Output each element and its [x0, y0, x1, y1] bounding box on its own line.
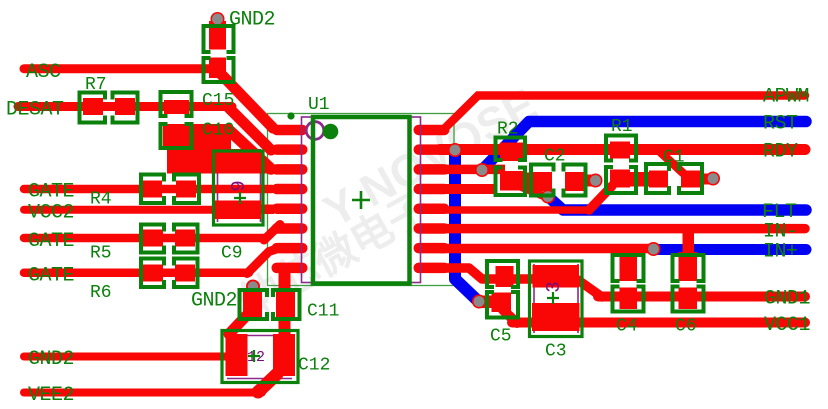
capacitor C3 bottom pad: [532, 303, 580, 331]
resistor R1 bracket bottom: [606, 167, 636, 193]
via GND2 top: [211, 12, 225, 26]
wire C1 stub to via: [699, 174, 712, 185]
svg-text:GND2: GND2: [28, 348, 74, 371]
U1 center cross: [352, 191, 370, 209]
resistor R1 pad top: [610, 142, 630, 159]
wire diagonal R5 to U1 row6: [264, 225, 280, 241]
wire R1 to C1 bridge: [610, 172, 668, 187]
svg-text:12: 12: [247, 349, 265, 366]
capacitor C4 bracket bottom: [613, 287, 644, 312]
svg-text:GND2: GND2: [229, 9, 275, 32]
via C11 left: [246, 280, 260, 294]
op-amp U1 courtyard thin green: [268, 114, 455, 286]
capacitor GND2-cap bracket top: [204, 26, 234, 52]
capacitor C15 bracket top: [161, 92, 192, 116]
capacitor C5 top pad: [496, 266, 514, 287]
capacitor C3 plus mark: [547, 292, 559, 304]
wire C2 stub to via: [583, 175, 596, 187]
wire diagonal VEE2 to C12: [258, 374, 277, 392]
wire IN+ red feed: [440, 244, 652, 254]
svg-text:R4: R4: [90, 190, 112, 210]
svg-text:R1: R1: [611, 117, 633, 137]
wire IN+ blue from via to right: [654, 244, 806, 255]
svg-text:GATE: GATE: [28, 265, 74, 288]
capacitor C2 bracket left: [531, 165, 554, 196]
svg-text:3: 3: [543, 281, 565, 292]
capacitor C4 bottom pad: [620, 288, 638, 310]
capacitor C11 pad left: [243, 292, 262, 317]
resistor R2 pad bottom: [500, 171, 523, 191]
capacitor C9 bottom pad: [213, 201, 261, 220]
wire GND1: [598, 292, 805, 302]
wire VEE2: [24, 389, 262, 397]
op-amp U1 body outline: [313, 117, 410, 284]
capacitor C6 bottom pad: [679, 288, 698, 310]
capacitor C6 bracket top: [673, 255, 704, 281]
svg-text:C10: C10: [202, 121, 234, 141]
capacitor C1 pad right: [681, 171, 700, 188]
svg-text:C4: C4: [616, 317, 638, 337]
capacitor C11 bracket right: [273, 290, 300, 319]
svg-text:C11: C11: [307, 302, 339, 322]
svg-text:C15: C15: [202, 91, 234, 111]
svg-text:C2: C2: [544, 147, 566, 167]
resistor R4 bracket right: [174, 175, 199, 204]
svg-text:R5: R5: [90, 244, 112, 264]
svg-text:9: 9: [228, 180, 250, 191]
svg-text:APWM: APWM: [763, 86, 809, 109]
wire IN- stub down to C6: [683, 229, 695, 262]
wire FLT from via diagonal then horizontal: [548, 197, 806, 211]
capacitor C1 bracket right: [679, 164, 702, 193]
resistor R7 bracket left: [80, 93, 106, 123]
U1 pads right: [414, 125, 450, 273]
wire blue vertical under U1 right then diagonal to via: [455, 150, 478, 301]
wire RDY: [440, 144, 805, 155]
wire GATE3 to R6: [24, 269, 249, 278]
resistor R2 bracket top: [496, 138, 526, 161]
svg-text:C3: C3: [545, 342, 567, 362]
wire RST diagonal from via to RST line: [482, 122, 806, 171]
wire row3 to R2: [440, 165, 505, 175]
capacitor C1 pad left: [649, 171, 668, 188]
wire diagonal pour to U1 pin row3: [230, 131, 271, 169]
svg-text:GATE: GATE: [28, 181, 74, 204]
wire C9 pad to U1 row5: [258, 205, 274, 215]
wire APWM diagonal and line: [443, 96, 805, 131]
svg-text:C9: C9: [221, 244, 243, 264]
capacitor C9 plus mark: [234, 192, 246, 204]
svg-text:VCC2: VCC2: [28, 202, 74, 225]
resistor R5 bracket left: [141, 225, 164, 253]
capacitor C4 top pad: [620, 256, 638, 282]
svg-text:R7: R7: [85, 75, 107, 95]
wire vertical U1 row8 to C11 to C12: [279, 266, 291, 335]
capacitor C11 pad right: [276, 292, 295, 317]
capacitor GND2 top pad1: [209, 21, 226, 50]
resistor R6 bracket left: [141, 259, 164, 288]
capacitor C9 outline: [214, 151, 264, 225]
capacitor C3 purple lines: [534, 264, 578, 333]
capacitor C12 pad right: [273, 334, 295, 376]
capacitor C12 pad left: [226, 334, 248, 376]
wire IN-: [440, 224, 805, 234]
svg-text:GND2: GND2: [191, 290, 237, 313]
svg-text:RDY: RDY: [763, 141, 798, 164]
wire diagonal DESAT to U1 pin row2: [229, 108, 271, 150]
resistor R7 pad left: [83, 98, 103, 115]
capacitor C12 plus mark: [248, 350, 260, 362]
wire diagonal row5 to R1: [589, 186, 612, 210]
resistor R4 pad right: [176, 181, 196, 198]
via on RDY near U1: [448, 143, 462, 157]
via row3 RST: [475, 163, 489, 177]
svg-text:DESAT: DESAT: [6, 99, 64, 122]
wire diagonal R6 to U1 row7: [247, 250, 275, 274]
wire diagonal R2 to FLT via: [519, 186, 546, 197]
capacitor C15 bracket bottom: [161, 124, 192, 148]
capacitor C2 bracket right: [564, 165, 586, 196]
capacitor C15 bottom pad: [163, 126, 190, 147]
wire diagonal RDY to C1: [658, 150, 683, 173]
resistor R5 bracket right: [174, 225, 198, 253]
capacitor C9 purple lines: [218, 153, 261, 222]
resistor R5 pad left: [143, 230, 163, 247]
wire row5 over FLT: [440, 206, 591, 214]
wire row4 right stub: [440, 184, 496, 194]
resistor R4 pad left: [142, 181, 162, 198]
svg-text:GND1: GND1: [764, 288, 811, 311]
wire row8 to C5: [440, 268, 540, 279]
wire R2 to C2 bridge: [520, 173, 552, 190]
U1 pin1 purple circle: [306, 122, 324, 140]
svg-text:C5: C5: [490, 327, 512, 347]
watermark: [232, 79, 545, 326]
capacitor C9 top pad: [214, 149, 261, 173]
capacitor C15 top pad: [164, 100, 189, 114]
capacitor C10 copper pour: [167, 124, 231, 173]
svg-text:R2: R2: [497, 120, 519, 140]
wire via to C5 bottom: [479, 296, 495, 309]
resistor R2 bracket bottom: [496, 168, 526, 196]
resistor R2 pad top: [500, 143, 523, 162]
wire GND2 bottom: [24, 353, 230, 361]
resistor R1 pad bottom: [610, 170, 630, 188]
wire DESAT: [18, 102, 232, 111]
capacitor C6 top pad: [679, 252, 698, 281]
purple inner lines (under copper): [218, 153, 579, 379]
resistor R5 pad right: [175, 230, 195, 247]
capacitor C3 top pad: [533, 265, 580, 288]
svg-text:IN+: IN+: [763, 241, 798, 264]
wire GATE2 to R5: [24, 234, 265, 243]
capacitor GND2-cap bracket bottom: [204, 58, 234, 82]
svg-text:R6: R6: [90, 283, 112, 303]
U1 courtyard corner dot: [287, 112, 294, 119]
wire ASC: [24, 64, 218, 73]
via FLT: [541, 190, 555, 204]
wire diagonal C5 to VCC1: [503, 310, 517, 323]
capacitor C5 bracket bottom: [487, 292, 518, 318]
wire diagonal C11 to C12: [229, 315, 247, 334]
capacitor C12 purple lines: [227, 336, 292, 379]
capacitor GND2 top pad2: [209, 58, 226, 79]
capacitor C4 bracket top: [613, 255, 644, 281]
svg-text:C12: C12: [298, 356, 330, 376]
capacitor C2 pad left: [533, 172, 552, 191]
U1 pin1 green dot: [323, 124, 339, 140]
capacitor C2 pad right: [565, 172, 584, 191]
U1 pads left: [272, 125, 308, 273]
resistor R7 bracket right: [113, 93, 138, 123]
capacitor C12 outline: [222, 331, 298, 383]
svg-text:U1: U1: [308, 95, 330, 115]
svg-text:VEE2: VEE2: [28, 384, 74, 407]
svg-text:RST: RST: [763, 113, 798, 136]
wire VCC1: [512, 318, 805, 328]
capacitor C6 bracket bottom: [673, 287, 704, 312]
capacitor C3 outline: [530, 261, 583, 337]
wire diagonal ASC to U1 pin row1: [220, 73, 273, 128]
resistor R6 pad left: [143, 265, 163, 282]
via VCC1 bottom: [472, 295, 486, 309]
wire diagonal C3 to GND1: [578, 280, 602, 297]
via IN+: [647, 242, 661, 256]
wire strip pour to row3: [167, 165, 273, 174]
svg-text:GATE: GATE: [28, 230, 74, 253]
svg-text:VCC1: VCC1: [764, 314, 811, 337]
resistor R6 pad right: [175, 265, 195, 282]
capacitor C11 bracket left: [240, 290, 268, 319]
wire VCC2: [24, 206, 215, 214]
svg-text:C6: C6: [675, 317, 697, 337]
capacitor C5 bottom pad: [492, 293, 512, 313]
svg-text:ASC: ASC: [26, 61, 61, 84]
svg-text:C1: C1: [663, 148, 685, 168]
via C2 right: [589, 174, 603, 188]
resistor R7 pad right: [115, 98, 135, 115]
op-amp U1 courtyard purple: [302, 117, 421, 283]
wire GATE1 to R4 to U1 row4: [24, 185, 272, 194]
via C1 right: [706, 172, 720, 186]
resistor R4 bracket left: [141, 175, 164, 204]
capacitor C1 bracket left: [646, 164, 669, 193]
resistor R1 bracket top: [606, 136, 636, 161]
capacitor C5 bracket top: [487, 261, 518, 287]
resistor R6 bracket right: [174, 259, 198, 288]
